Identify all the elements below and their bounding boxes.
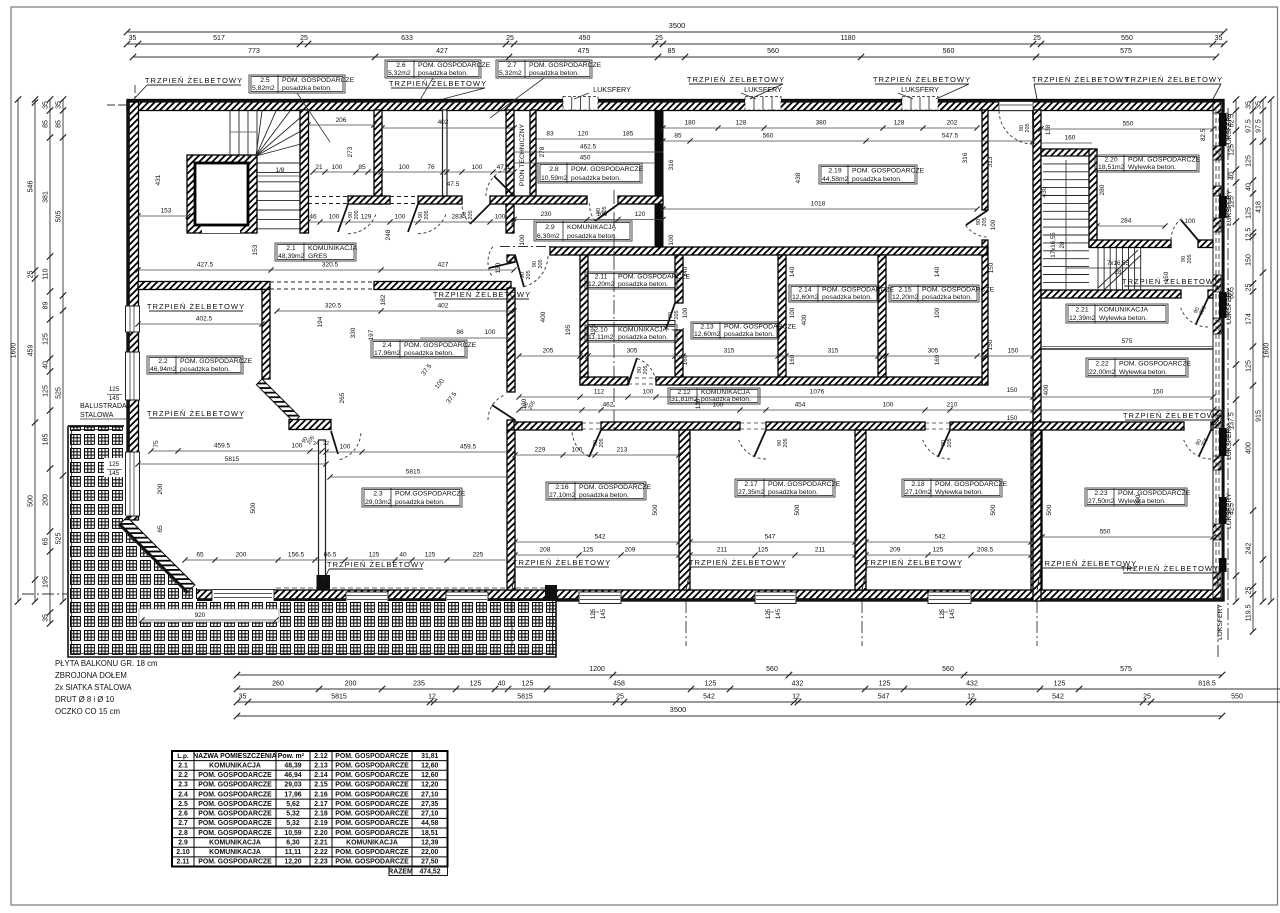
dim 83 120 185 room 2.8 <box>536 138 655 140</box>
svg-text:2.5: 2.5 <box>178 801 188 808</box>
svg-text:29,03m2: 29,03m2 <box>365 499 392 506</box>
svg-text:posadzka beton.: posadzka beton. <box>567 233 617 240</box>
svg-text:100: 100 <box>395 214 406 221</box>
svg-text:ZBROJONA DOŁEM: ZBROJONA DOŁEM <box>55 671 127 680</box>
door room 2.10 east <box>666 303 675 329</box>
svg-text:12,20: 12,20 <box>284 859 301 866</box>
svg-text:97.5: 97.5 <box>1246 119 1253 133</box>
svg-text:TRZPIEŃ ŻELBETOWY: TRZPIEŃ ŻELBETOWY <box>689 558 787 567</box>
svg-text:TRZPIEŃ ŻELBETOWY: TRZPIEŃ ŻELBETOWY <box>389 79 487 88</box>
svg-text:205: 205 <box>643 365 649 374</box>
svg-text:100: 100 <box>668 234 675 245</box>
svg-text:1/8: 1/8 <box>275 167 284 174</box>
svg-text:2.12: 2.12 <box>314 753 328 760</box>
svg-text:GRES: GRES <box>308 253 328 260</box>
svg-text:100: 100 <box>495 214 506 221</box>
svg-text:208.5: 208.5 <box>977 547 994 554</box>
bottom dimension chain row2 <box>237 688 1280 690</box>
dash-dot opening line west of wall <box>500 246 553 248</box>
svg-text:Pow. m2: Pow. m2 <box>278 752 305 760</box>
svg-text:380: 380 <box>816 120 827 127</box>
svg-text:125: 125 <box>583 547 594 554</box>
svg-text:LUKSFERY: LUKSFERY <box>1217 604 1224 640</box>
svg-text:194: 194 <box>317 316 324 327</box>
svg-text:KOMUNIKACJA: KOMUNIKACJA <box>209 762 261 769</box>
svg-text:100: 100 <box>399 164 410 171</box>
svg-text:500: 500 <box>652 504 659 515</box>
svg-text:85: 85 <box>668 48 676 55</box>
dim line below wall band1 (320.5 402) <box>277 310 514 312</box>
svg-text:125: 125 <box>425 552 436 559</box>
room 2.11 west wall <box>580 255 588 385</box>
svg-text:315: 315 <box>724 348 735 355</box>
svg-text:125: 125 <box>879 681 891 688</box>
bottom dimension chain row3 <box>237 701 1280 703</box>
svg-text:125: 125 <box>765 608 772 619</box>
balcony outer border <box>68 426 556 657</box>
svg-text:TRZPIEŃ ŻELBETOWY: TRZPIEŃ ŻELBETOWY <box>513 558 611 567</box>
svg-text:402: 402 <box>438 303 449 310</box>
svg-text:427: 427 <box>438 262 449 269</box>
svg-text:150: 150 <box>1007 415 1018 422</box>
dim 920 below bottom wall (white sill strip) <box>139 609 279 622</box>
dashed wall openings in corridor north wall <box>308 196 348 198</box>
svg-text:400: 400 <box>1043 384 1050 395</box>
svg-text:432: 432 <box>792 681 804 688</box>
svg-text:202: 202 <box>947 120 958 127</box>
svg-text:2.11: 2.11 <box>176 859 189 866</box>
entrance door top wall <box>1032 110 1035 144</box>
svg-text:1018: 1018 <box>811 201 826 208</box>
svg-text:818.5: 818.5 <box>1198 681 1216 688</box>
svg-text:209: 209 <box>625 547 636 554</box>
room 2.17 dim line 211 125 211 <box>690 554 855 556</box>
svg-text:27,50: 27,50 <box>421 859 438 866</box>
svg-text:2.16: 2.16 <box>555 484 568 491</box>
stair winder fan <box>256 111 262 156</box>
svg-text:35: 35 <box>43 101 50 109</box>
room 2.8 label <box>538 163 642 183</box>
wall east of big left room (V8) <box>507 255 515 262</box>
room 2.3 label <box>362 488 462 507</box>
svg-text:305: 305 <box>928 348 939 355</box>
svg-text:242: 242 <box>1246 543 1253 555</box>
door room 2.3 <box>331 431 338 454</box>
left dimension chain 1600 <box>17 100 19 602</box>
svg-text:130: 130 <box>495 262 502 273</box>
svg-text:POM. GOSPODARCZE: POM. GOSPODARCZE <box>852 168 925 175</box>
leader room 2.7 <box>490 78 544 118</box>
stair upper flight treads along top wall <box>229 111 231 158</box>
room 2.12 komunikacja label <box>668 388 760 404</box>
svg-text:211: 211 <box>815 547 826 554</box>
dim line 581.5 room 2.3 <box>330 476 509 478</box>
svg-text:125: 125 <box>1246 360 1253 372</box>
bottom wall window (balcony door) <box>212 590 274 602</box>
svg-text:25: 25 <box>1143 694 1151 701</box>
svg-text:TRZPIEŃ ŻELBETOWY: TRZPIEŃ ŻELBETOWY <box>145 76 243 85</box>
svg-text:125: 125 <box>109 461 120 468</box>
svg-text:85: 85 <box>43 120 50 128</box>
svg-text:POM. GOSPODARCZE: POM. GOSPODARCZE <box>335 820 409 827</box>
dashed opening lines corridor 2.12 doors <box>582 422 601 424</box>
svg-text:140: 140 <box>934 266 941 277</box>
svg-text:100: 100 <box>340 444 351 451</box>
svg-text:156.5: 156.5 <box>288 552 305 559</box>
wall between rooms 2.14 and 2.15 <box>878 255 886 385</box>
svg-text:2.22: 2.22 <box>314 849 328 856</box>
east wall inner dashed lines <box>1215 110 1217 590</box>
svg-text:TRZPIEŃ ŻELBETOWY: TRZPIEŃ ŻELBETOWY <box>147 409 245 418</box>
svg-text:40: 40 <box>498 681 506 688</box>
svg-text:2x SIATKA STALOWA: 2x SIATKA STALOWA <box>55 683 132 692</box>
svg-text:Wylewka beton.: Wylewka beton. <box>1118 498 1166 505</box>
svg-text:TRZPIEŃ ŻELBETOWY: TRZPIEŃ ŻELBETOWY <box>1032 75 1130 84</box>
svg-text:LUKSFERY: LUKSFERY <box>1226 493 1233 529</box>
dim line 581.5 left <box>138 463 326 465</box>
column at partition south end <box>317 575 331 590</box>
svg-text:547: 547 <box>765 534 776 541</box>
svg-text:213: 213 <box>617 447 628 454</box>
svg-text:22,00: 22,00 <box>421 849 438 856</box>
svg-text:100: 100 <box>643 389 654 396</box>
bottom dimension chain row1 <box>237 674 1222 676</box>
svg-text:18,51: 18,51 <box>421 830 438 837</box>
svg-text:posadzka beton.: posadzka beton. <box>282 85 332 92</box>
svg-text:150: 150 <box>987 339 994 350</box>
svg-text:LUKSFERY: LUKSFERY <box>1226 288 1233 324</box>
svg-text:35: 35 <box>56 101 63 109</box>
svg-text:915: 915 <box>1256 410 1263 422</box>
svg-text:284: 284 <box>1121 218 1132 225</box>
svg-text:POM. GOSPODARCZE: POM. GOSPODARCZE <box>724 324 797 331</box>
svg-text:35: 35 <box>1256 101 1263 109</box>
svg-text:2.15: 2.15 <box>314 782 328 789</box>
right section dim 575 <box>1041 346 1213 348</box>
svg-text:128: 128 <box>894 120 905 127</box>
partition between rooms 2.11 and 2.10 <box>588 321 675 325</box>
svg-text:205: 205 <box>424 210 430 219</box>
svg-text:LUKSFERY: LUKSFERY <box>1226 190 1233 226</box>
svg-text:89: 89 <box>43 302 50 310</box>
svg-text:POM. GOSPODARCZE: POM. GOSPODARCZE <box>768 481 841 488</box>
svg-text:260: 260 <box>272 681 284 688</box>
svg-text:3500: 3500 <box>670 705 687 714</box>
svg-text:145: 145 <box>949 608 956 619</box>
svg-text:316: 316 <box>668 159 675 170</box>
svg-text:2.7: 2.7 <box>507 62 517 69</box>
svg-text:17,96: 17,96 <box>284 791 301 798</box>
svg-text:211: 211 <box>717 547 728 554</box>
svg-text:POM. GOSPODARCZE: POM. GOSPODARCZE <box>335 791 409 798</box>
svg-text:205: 205 <box>783 438 789 447</box>
svg-text:500: 500 <box>250 502 257 513</box>
svg-text:12,20: 12,20 <box>421 782 438 789</box>
exterior right (east) wall <box>1213 102 1224 599</box>
svg-text:129: 129 <box>361 214 372 221</box>
svg-text:25: 25 <box>300 35 308 42</box>
svg-text:100: 100 <box>789 307 796 318</box>
svg-text:2.19: 2.19 <box>314 820 328 827</box>
svg-text:100: 100 <box>572 447 583 454</box>
room 2.21 komunikacja label <box>1066 304 1168 323</box>
svg-text:2.14: 2.14 <box>314 772 328 779</box>
svg-text:500: 500 <box>990 504 997 515</box>
room 2.20 south wall <box>1089 240 1171 248</box>
svg-text:5,32: 5,32 <box>286 820 300 827</box>
svg-text:6,30m2: 6,30m2 <box>537 233 560 240</box>
svg-text:12,60: 12,60 <box>421 762 438 769</box>
svg-text:posadzka beton.: posadzka beton. <box>768 489 818 496</box>
east wall outer black edge <box>1222 102 1225 601</box>
svg-text:920: 920 <box>195 612 206 619</box>
pion techniczny shaft right wall <box>530 110 536 196</box>
svg-text:2.2: 2.2 <box>178 772 188 779</box>
svg-text:28: 28 <box>1115 269 1122 276</box>
svg-text:Wylewka beton.: Wylewka beton. <box>935 489 983 496</box>
svg-text:TRZPIEŃ ŻELBETOWY: TRZPIEŃ ŻELBETOWY <box>327 560 425 569</box>
svg-text:195: 195 <box>43 576 50 588</box>
svg-text:209: 209 <box>890 547 901 554</box>
diagonal wall at balcony corner (over grid) <box>119 517 195 593</box>
svg-text:185: 185 <box>43 434 50 446</box>
svg-text:31,81: 31,81 <box>421 753 438 760</box>
svg-text:NAZWA POMIESZCZENIA: NAZWA POMIESZCZENIA <box>193 753 277 760</box>
balcony grid left column <box>68 426 124 657</box>
svg-text:432: 432 <box>966 681 978 688</box>
svg-text:575: 575 <box>1122 338 1133 345</box>
svg-text:RAZEM: RAZEM <box>388 869 413 876</box>
svg-text:2.17: 2.17 <box>744 481 757 488</box>
svg-text:205: 205 <box>599 438 605 447</box>
bottom dimension chain 3500 <box>237 715 1222 717</box>
svg-text:83: 83 <box>546 131 554 138</box>
svg-text:11,11m2: 11,11m2 <box>588 334 614 341</box>
svg-text:40: 40 <box>1246 183 1253 191</box>
door room 2.18 <box>938 430 950 457</box>
svg-text:POM. GOSPODARCZE: POM. GOSPODARCZE <box>335 772 409 779</box>
elevator car box <box>195 163 248 225</box>
wall below room 2.2 corner <box>262 290 270 380</box>
door room 2.19 east <box>966 210 988 225</box>
svg-text:22,00m2: 22,00m2 <box>1089 369 1116 376</box>
dim line 206 above room 2.5 <box>308 124 374 126</box>
svg-text:7x16,55: 7x16,55 <box>1107 260 1130 267</box>
svg-text:posadzka beton.: posadzka beton. <box>395 499 445 506</box>
svg-text:POM. GOSPODARCZE: POM. GOSPODARCZE <box>335 859 409 866</box>
svg-text:82.5: 82.5 <box>1200 128 1207 141</box>
svg-text:posadzka beton.: posadzka beton. <box>724 331 774 338</box>
svg-text:46,94: 46,94 <box>284 772 301 779</box>
room 2.15 label <box>889 285 979 302</box>
bottom wall vent boxes <box>346 592 388 604</box>
svg-text:31,81m2: 31,81m2 <box>671 396 698 403</box>
svg-text:PION TECHNICZNY: PION TECHNICZNY <box>519 123 526 186</box>
room 2.1 komunikacja label <box>275 243 356 261</box>
right dimension chain mid <box>1235 100 1237 602</box>
door V8 upper <box>489 262 515 268</box>
dashed hidden slab edge above bottom wall <box>276 587 556 589</box>
column at grid strip end <box>545 585 557 600</box>
svg-text:475: 475 <box>578 48 590 55</box>
svg-text:119.5: 119.5 <box>1246 604 1253 621</box>
svg-text:235: 235 <box>413 681 425 688</box>
svg-text:140: 140 <box>789 266 796 277</box>
room 2.19 label <box>819 165 917 184</box>
long wall south of corridor 2.9 / room 2.19 <box>550 247 987 255</box>
svg-text:2.6: 2.6 <box>396 62 406 69</box>
svg-text:2.3: 2.3 <box>373 491 383 498</box>
svg-text:2.13: 2.13 <box>314 762 328 769</box>
door V8 lower to corridor 2.12 <box>492 405 515 420</box>
svg-text:TRZPIEŃ ŻELBETOWY: TRZPIEŃ ŻELBETOWY <box>865 558 963 567</box>
svg-text:12,60m2: 12,60m2 <box>792 294 819 301</box>
svg-text:2.1: 2.1 <box>286 245 296 252</box>
room 2.5 label <box>249 75 345 93</box>
dim 86 100 115 32.5 line <box>420 337 511 339</box>
svg-text:2.4: 2.4 <box>382 342 392 349</box>
svg-text:459: 459 <box>28 345 35 357</box>
dashed opening between <box>270 281 374 283</box>
svg-text:500: 500 <box>1046 504 1053 515</box>
svg-text:KOMUNIKACJA: KOMUNIKACJA <box>618 327 668 334</box>
svg-text:633: 633 <box>401 35 413 42</box>
svg-text:29,03: 29,03 <box>284 782 301 789</box>
svg-text:550: 550 <box>1123 121 1134 128</box>
svg-text:200: 200 <box>236 552 247 559</box>
svg-text:320.5: 320.5 <box>325 303 342 310</box>
svg-text:550: 550 <box>1231 694 1243 701</box>
wall between rooms 2.18 and 2.23 <box>1031 430 1042 590</box>
svg-text:2.23: 2.23 <box>314 859 328 866</box>
svg-text:150: 150 <box>1153 389 1164 396</box>
corridor 2.12 dim line 112 100 1076 150 <box>519 396 1213 398</box>
svg-text:LUKSFERY: LUKSFERY <box>1226 112 1233 148</box>
svg-text:100: 100 <box>519 234 526 245</box>
svg-text:2.10: 2.10 <box>594 327 607 334</box>
dim line 402 above room 2.6-2.7 <box>382 127 514 129</box>
wall between rooms 2.5 and 2.6 <box>374 110 382 204</box>
luksfery window top wall 2 <box>745 97 781 111</box>
svg-text:459.5: 459.5 <box>460 444 477 451</box>
elevator shaft walls <box>187 155 257 233</box>
svg-text:208: 208 <box>540 547 551 554</box>
svg-text:182: 182 <box>380 294 387 305</box>
svg-text:27,10m2: 27,10m2 <box>905 489 932 496</box>
svg-text:454: 454 <box>795 402 806 409</box>
svg-text:550: 550 <box>1121 35 1133 42</box>
wall south of corridor 2.1 - right segment <box>374 282 511 290</box>
svg-text:150: 150 <box>1008 348 1019 355</box>
door corridor 2.9 south-west <box>515 255 524 287</box>
room 2.23 dim line 550 <box>1042 536 1213 538</box>
svg-text:125: 125 <box>1246 155 1253 167</box>
svg-text:205: 205 <box>602 206 608 215</box>
svg-text:BALUSTRADA: BALUSTRADA <box>80 403 127 410</box>
svg-text:560: 560 <box>942 666 954 673</box>
svg-text:posadzka beton.: posadzka beton. <box>418 70 468 77</box>
svg-text:KOMUNIKACJA: KOMUNIKACJA <box>567 224 617 231</box>
svg-text:462.5: 462.5 <box>580 144 597 151</box>
svg-text:POM. GOSPODARCZE: POM. GOSPODARCZE <box>198 820 272 827</box>
svg-text:517: 517 <box>213 35 225 42</box>
svg-text:430: 430 <box>1041 186 1048 197</box>
dim 1018 room 2.19 <box>663 208 977 210</box>
svg-text:POM. GOSPODARCZE: POM. GOSPODARCZE <box>198 772 272 779</box>
west wall window lower (balcony door) <box>126 452 140 516</box>
wall between rooms 2.16 and 2.17 <box>679 430 690 590</box>
svg-text:POM. GOSPODARCZE: POM. GOSPODARCZE <box>198 811 272 818</box>
svg-text:27,35: 27,35 <box>421 801 438 808</box>
svg-text:65: 65 <box>196 552 204 559</box>
svg-text:418: 418 <box>1256 201 1263 213</box>
svg-text:100: 100 <box>883 402 894 409</box>
svg-text:KOMUNIKACJA: KOMUNIKACJA <box>209 849 261 856</box>
svg-text:205: 205 <box>947 438 953 447</box>
svg-text:1076: 1076 <box>810 389 825 396</box>
svg-text:542: 542 <box>703 694 715 701</box>
svg-text:100: 100 <box>329 214 340 221</box>
svg-text:2.5: 2.5 <box>260 77 270 84</box>
svg-text:25: 25 <box>655 35 663 42</box>
svg-text:112: 112 <box>594 389 605 396</box>
room 2.17 label <box>735 479 835 497</box>
west wall outer black edge <box>127 102 130 520</box>
svg-text:450: 450 <box>579 35 591 42</box>
right section dim 550 top <box>1041 128 1213 130</box>
svg-text:86: 86 <box>456 329 464 336</box>
door room 2.7 upper <box>494 176 514 196</box>
svg-text:125: 125 <box>1054 681 1066 688</box>
svg-text:100: 100 <box>1185 218 1196 225</box>
svg-text:125: 125 <box>705 681 717 688</box>
partition between room 2.2 area and room 2.3 <box>319 440 326 576</box>
svg-text:5,62: 5,62 <box>286 801 300 808</box>
svg-text:18,51m2: 18,51m2 <box>1098 164 1125 171</box>
svg-text:11,11: 11,11 <box>285 849 302 856</box>
svg-text:1200: 1200 <box>589 666 605 673</box>
section axis dash-dot line x=614 <box>613 190 615 430</box>
svg-text:2.8: 2.8 <box>549 166 559 173</box>
svg-text:POM. GOSPODARCZE: POM. GOSPODARCZE <box>335 782 409 789</box>
svg-text:posadzka beton.: posadzka beton. <box>701 396 751 403</box>
svg-text:POM. GOSPODARCZE: POM. GOSPODARCZE <box>1128 157 1201 164</box>
svg-text:17,96m2: 17,96m2 <box>374 350 401 357</box>
svg-text:2.9: 2.9 <box>178 839 188 846</box>
svg-text:47.5: 47.5 <box>497 164 510 171</box>
svg-text:12,20m2: 12,20m2 <box>892 294 919 301</box>
svg-text:160: 160 <box>1065 135 1076 142</box>
svg-text:525: 525 <box>56 533 63 545</box>
svg-text:TRZPIEŃ ŻELBETOWY: TRZPIEŃ ŻELBETOWY <box>1122 277 1220 286</box>
svg-text:POM. GOSPODARCZE: POM. GOSPODARCZE <box>335 753 409 760</box>
svg-text:525: 525 <box>56 387 63 399</box>
right dimension chain outer <box>1262 100 1264 602</box>
svg-text:Wylewka beton.: Wylewka beton. <box>1128 164 1176 171</box>
exterior left (west) wall <box>127 102 139 520</box>
dims 125 145 west wall windows <box>104 383 124 402</box>
west wall window middle <box>126 352 140 400</box>
svg-text:Wylewka beton.: Wylewka beton. <box>1099 315 1147 322</box>
svg-text:273: 273 <box>347 146 354 157</box>
svg-text:120: 120 <box>635 211 646 218</box>
svg-text:315: 315 <box>828 348 839 355</box>
svg-text:474,52: 474,52 <box>419 869 440 876</box>
svg-text:125: 125 <box>522 681 534 688</box>
svg-text:5815: 5815 <box>517 694 533 701</box>
svg-text:12,39m2: 12,39m2 <box>1069 315 1096 322</box>
svg-text:65: 65 <box>157 525 164 533</box>
